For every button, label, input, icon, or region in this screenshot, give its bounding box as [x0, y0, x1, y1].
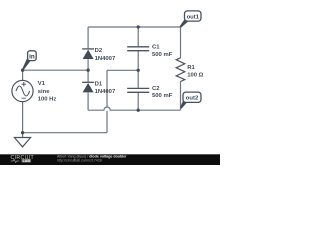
wire V1 bottom lead	[22, 102, 24, 133]
node junction cap mid	[137, 69, 140, 72]
wire R1 bottom to bottom rail	[180, 82, 182, 111]
wire V1 top lead	[22, 70, 24, 80]
diode D2	[82, 49, 94, 59]
svg-text:100 Ω: 100 Ω	[187, 73, 203, 79]
wire cap-mid riser upper	[106, 70, 108, 107]
diode D1	[82, 82, 94, 92]
wire cap-mid horizontal	[107, 69, 138, 71]
capacitor C2	[127, 88, 149, 92]
svg-text:D1: D1	[95, 81, 103, 87]
node flag out1	[180, 11, 201, 28]
svg-text:1N4007: 1N4007	[95, 56, 116, 62]
node junction ground	[21, 131, 24, 134]
svg-text:C2: C2	[152, 86, 160, 92]
source V1	[12, 80, 33, 101]
wire bottom rail with hop	[88, 107, 180, 110]
wire D2-D1 link	[87, 59, 89, 82]
svg-text:500 mF: 500 mF	[152, 52, 173, 58]
logo CircuitLab	[11, 155, 35, 163]
svg-text:D2: D2	[95, 48, 103, 54]
wire C1 top lead	[137, 27, 139, 46]
svg-text:in: in	[29, 53, 35, 60]
svg-text:C1: C1	[152, 44, 160, 50]
resistor R1	[176, 58, 185, 82]
ground	[14, 133, 30, 147]
wire cap-mid riser lower	[106, 111, 108, 133]
node junction bottom rail C2	[137, 109, 140, 112]
svg-text:V1: V1	[38, 81, 46, 87]
wire C1-C2 link	[137, 51, 139, 88]
wire middle V1 to diodes	[23, 69, 89, 71]
footer bar	[0, 154, 220, 165]
svg-text:1N4007: 1N4007	[95, 89, 116, 95]
svg-text:500 mF: 500 mF	[152, 93, 173, 99]
node junction V1 top	[21, 69, 24, 72]
svg-text:out1: out1	[187, 14, 200, 20]
svg-text:http://circuitlab.com/c/17428: http://circuitlab.com/c/17428	[57, 159, 102, 163]
wire C2 bottom lead	[137, 93, 139, 110]
wire D2 top lead	[87, 27, 89, 48]
svg-text:sine: sine	[38, 89, 51, 95]
svg-text:R1: R1	[187, 65, 195, 71]
node flag out2	[180, 92, 201, 109]
wire ground rail	[23, 132, 107, 134]
node junction diode mid	[86, 69, 89, 72]
svg-text:out2: out2	[186, 96, 199, 102]
svg-text:100 Hz: 100 Hz	[38, 97, 57, 103]
wire D1 bottom lead	[87, 93, 89, 111]
wire top rail	[88, 26, 180, 28]
node junction top rail C1	[137, 25, 140, 28]
node flag in	[22, 51, 36, 71]
svg-text:LAB: LAB	[23, 159, 31, 163]
wire out1 to R1 top	[180, 27, 182, 58]
capacitor C1	[127, 47, 149, 51]
